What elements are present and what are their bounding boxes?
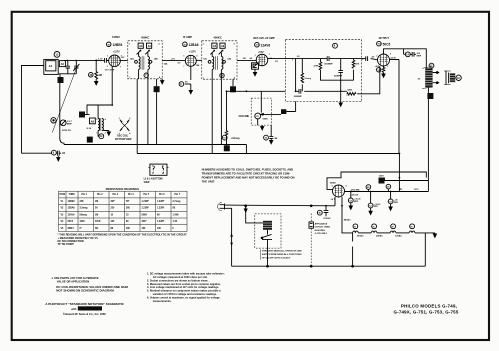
grid trace box 5 black under transformer xyxy=(427,93,433,99)
AVC bypass capacitor .02 xyxy=(22,150,66,161)
capacitor grid coupling xyxy=(105,58,109,63)
svg-text:TUBE: TUBE xyxy=(69,194,76,196)
tuning capacitor gang section xyxy=(51,118,56,123)
wire rectifier plate loop xyxy=(327,172,426,189)
svg-text:68: 68 xyxy=(173,208,176,210)
svg-text:7: 7 xyxy=(269,54,270,56)
svg-text:117V: 117V xyxy=(414,189,419,191)
svg-text:2M*: 2M* xyxy=(111,201,115,203)
grid leak resistor 6M xyxy=(89,60,102,84)
svg-text:PONENT REPLACEMENT AND MAY NOT: PONENT REPLACEMENT AND MAY NOT NECESSARI… xyxy=(202,176,295,180)
wire IF1 pin drops xyxy=(137,79,148,154)
svg-text:18: 18 xyxy=(457,78,460,80)
svg-text:VOLUME: VOLUME xyxy=(238,115,249,118)
cord break arrows xyxy=(230,233,233,245)
svg-text:3M: 3M xyxy=(274,138,277,140)
svg-text:ITEM: ITEM xyxy=(60,194,66,196)
heater V4 xyxy=(353,224,372,233)
line bypass capacitor .05 xyxy=(317,206,331,220)
pin number digits texture xyxy=(96,43,391,187)
svg-text:G-755 ONLY: G-755 ONLY xyxy=(315,233,328,235)
svg-text:185: 185 xyxy=(126,228,131,230)
svg-text:.02: .02 xyxy=(62,152,66,155)
svg-text:A5: A5 xyxy=(213,45,217,48)
svg-text:NC: NC xyxy=(95,228,99,230)
ground volume xyxy=(261,127,264,130)
svg-text:IN MODEL: IN MODEL xyxy=(315,230,326,232)
capacitor volume bypass xyxy=(264,135,278,143)
tube V4 50C5 output xyxy=(371,37,396,68)
tone capacitor 200MMF xyxy=(404,49,422,58)
svg-text:1.22M*: 1.22M* xyxy=(157,221,164,223)
svg-text:10meg: 10meg xyxy=(304,78,311,80)
svg-text:500K: 500K xyxy=(263,118,269,120)
fuse arrow AC xyxy=(244,205,247,212)
svg-text:NOT SHOWN ON SCHEMATIC DIAGRAM: NOT SHOWN ON SCHEMATIC DIAGRAM xyxy=(56,288,114,292)
capacitor C1 antenna xyxy=(66,60,70,73)
grid trace box 4 black xyxy=(281,101,296,114)
svg-text:2: 2 xyxy=(107,66,108,68)
svg-text:35W4: 35W4 xyxy=(330,181,336,184)
filter capacitor C14B xyxy=(368,192,380,215)
svg-text:variation of ±15% in voltage a: variation of ±15% in voltage and resista… xyxy=(153,292,217,296)
svg-text:2: 2 xyxy=(152,165,153,167)
svg-text:MFD: MFD xyxy=(394,202,399,204)
ground heater end xyxy=(433,233,436,237)
svg-text:.05 600V: .05 600V xyxy=(323,218,331,220)
svg-text:80: 80 xyxy=(126,221,129,223)
grid trace box 1 black osc xyxy=(87,137,93,143)
svg-text:6: 6 xyxy=(346,185,347,187)
svg-text:Pin 4: Pin 4 xyxy=(128,193,134,196)
wire V2 plate to IF2 xyxy=(196,59,202,61)
wire osc to converter xyxy=(87,105,112,119)
capacitor 220MMF AF lower xyxy=(294,89,303,98)
resistor 10meg AF xyxy=(301,73,312,83)
svg-text:5: 5 xyxy=(332,185,333,187)
grid trace box 3 black detector xyxy=(230,79,236,92)
svg-text:1.45K: 1.45K xyxy=(173,213,179,216)
heater V2 xyxy=(376,224,409,238)
wire antenna left down xyxy=(22,66,44,154)
svg-text:4: 4 xyxy=(283,110,285,114)
heater V1 xyxy=(357,224,390,238)
svg-text:MFD: MFD xyxy=(354,201,359,203)
svg-text:L3 & L4 BOTTOM: L3 & L4 BOTTOM xyxy=(144,178,163,181)
svg-text:260: 260 xyxy=(126,208,131,210)
svg-text:15: 15 xyxy=(256,116,259,118)
svg-text:OUTPUT: OUTPUT xyxy=(379,37,390,40)
on-off switch dashed box xyxy=(246,206,281,266)
osc coil bottom view symbol xyxy=(115,118,132,141)
svg-text:MFD: MFD xyxy=(374,206,379,208)
svg-text:56*: 56* xyxy=(126,201,130,203)
svg-text:Pin 6: Pin 6 xyxy=(159,194,165,196)
table footnotes xyxy=(58,233,188,246)
svg-text:12BA6: 12BA6 xyxy=(189,43,199,47)
wire antenna bottom xyxy=(58,74,76,77)
svg-text:140: 140 xyxy=(111,220,116,223)
svg-text:H: H xyxy=(392,226,394,228)
svg-text:THROUGH SAMS ALL-THROUGH ONE: THROUGH SAMS ALL-THROUGH ONE xyxy=(262,250,302,253)
svg-text:+117V: +117V xyxy=(113,51,120,54)
svg-text:220MMF: 220MMF xyxy=(334,75,343,77)
svg-text:6: 6 xyxy=(196,55,197,57)
svg-text:Pin 7: Pin 7 xyxy=(175,194,181,196)
svg-text:+CV: +CV xyxy=(171,58,176,60)
svg-text:A1: A1 xyxy=(49,64,53,68)
svg-text:5: 5 xyxy=(162,165,163,167)
svg-text:2.2K-1W: 2.2K-1W xyxy=(351,194,359,196)
trimmer capacitor antenna xyxy=(73,60,79,73)
svg-text:1: 1 xyxy=(255,55,256,57)
svg-text:1: 1 xyxy=(89,138,91,142)
svg-text:VIEW: VIEW xyxy=(144,182,151,184)
wire IF1 secondary to V2 grid xyxy=(162,59,185,61)
svg-text:-1.1V: -1.1V xyxy=(97,58,103,60)
antenna coil A2 xyxy=(59,61,65,67)
svg-text:Pin 1: Pin 1 xyxy=(82,194,88,196)
svg-text:68: 68 xyxy=(157,214,160,216)
wire 120V line xyxy=(385,178,429,181)
resistor 2.2meg AVC xyxy=(222,91,240,144)
wire B minus bus xyxy=(137,154,399,192)
grid trace box 5 black psu xyxy=(379,176,385,184)
svg-text:0*: 0* xyxy=(80,228,82,230)
svg-text:456KC: 456KC xyxy=(141,35,149,39)
svg-text:A4: A4 xyxy=(148,45,152,48)
svg-text:● USE PARTS LIST FOR ALTERNATE: ● USE PARTS LIST FOR ALTERNATE xyxy=(52,276,99,280)
wire V4 plate to output transformer xyxy=(384,49,427,69)
tube V3 12AV6 det avc af xyxy=(249,37,275,66)
svg-text:88: 88 xyxy=(111,228,114,230)
output transformer secondary leads xyxy=(433,72,440,84)
svg-text:84VAC: 84VAC xyxy=(344,218,351,221)
wire IF2 pin drops xyxy=(212,79,221,153)
svg-text:14A: 14A xyxy=(130,58,134,61)
svg-text:2: 2 xyxy=(155,88,157,92)
svg-text:6: 6 xyxy=(334,46,336,48)
svg-text:5. Nominal tolerance on comp: 5. Nominal tolerance on component values… xyxy=(147,289,221,293)
gang coupling diagonal xyxy=(52,67,77,133)
svg-text:15: 15 xyxy=(111,214,114,216)
coupling capacitor 500MMF xyxy=(324,56,334,65)
svg-text:5: 5 xyxy=(96,119,97,121)
parts list note bold xyxy=(52,276,129,292)
svg-text:4: 4 xyxy=(129,132,131,135)
svg-text:-6V: -6V xyxy=(371,56,375,58)
svg-text:measurements.: measurements. xyxy=(153,299,172,303)
part ref 12 osc coil xyxy=(98,131,104,139)
svg-text:1: 1 xyxy=(96,133,97,135)
svg-text:1M: 1M xyxy=(95,214,98,216)
detector diode load xyxy=(252,63,259,69)
svg-text:456KC: 456KC xyxy=(213,35,221,39)
svg-text:7: 7 xyxy=(378,66,379,68)
svg-text:1: 1 xyxy=(119,118,120,120)
svg-text:3: 3 xyxy=(362,59,363,61)
philco models title xyxy=(394,304,459,315)
svg-text:2: 2 xyxy=(129,43,131,45)
svg-text:H: H xyxy=(373,226,375,228)
ground V4 cathode xyxy=(382,73,385,78)
wire B plus vertical from transformer xyxy=(427,87,429,191)
svg-text:12VAC: 12VAC xyxy=(395,235,402,238)
svg-text:Pin 3: Pin 3 xyxy=(113,194,119,196)
svg-text:22K: 22K xyxy=(80,201,85,203)
part ref on rail 2 xyxy=(386,184,391,191)
svg-text:9: 9 xyxy=(53,153,55,155)
ground detector xyxy=(253,69,256,76)
svg-text:470K: 470K xyxy=(95,220,101,223)
svg-text:RESISTANCE READINGS: RESISTANCE READINGS xyxy=(106,187,139,191)
tube V5 35W4 rectifier xyxy=(330,181,345,200)
svg-text:154: 154 xyxy=(196,64,200,67)
svg-text:with: with xyxy=(71,307,77,311)
svg-text:15: 15 xyxy=(126,214,129,216)
svg-text:14B: 14B xyxy=(154,58,158,61)
svg-text:5: 5 xyxy=(390,53,391,55)
svg-text:3: 3 xyxy=(119,133,120,135)
svg-text:1. DC voltage measurements t: 1. DC voltage measurements taken with va… xyxy=(147,272,225,276)
svg-text:1400: 1400 xyxy=(80,220,86,223)
wire signal rail left xyxy=(64,59,104,61)
svg-text:5: 5 xyxy=(159,43,161,45)
svg-text:500MMF: 500MMF xyxy=(324,64,333,66)
svg-text:APPLIANCE: APPLIANCE xyxy=(315,222,328,225)
svg-text:0: 0 xyxy=(173,228,175,230)
svg-text:2.2meg: 2.2meg xyxy=(231,137,240,140)
numbers assigned note xyxy=(202,167,295,183)
AC plug xyxy=(218,202,225,210)
part ref 13 xyxy=(54,52,60,58)
svg-text:8: 8 xyxy=(180,84,182,86)
svg-text:©Howard W. Sams & Co., Inc. 19: ©Howard W. Sams & Co., Inc. 1959 xyxy=(63,312,106,316)
svg-text:1.22M*: 1.22M* xyxy=(157,201,164,203)
oscillator coil L2 xyxy=(85,115,110,136)
numbered notes xyxy=(147,272,225,303)
svg-text:3.3meg: 3.3meg xyxy=(80,208,89,210)
svg-text:OV: OV xyxy=(177,63,181,65)
resistance readings table xyxy=(59,187,188,231)
grid trace box 3 black osc xyxy=(79,112,85,118)
svg-text:14D: 14D xyxy=(227,58,231,61)
svg-text:1.22M*: 1.22M* xyxy=(142,208,149,210)
svg-text:A: A xyxy=(234,76,236,79)
svg-text:A PHOTOFACT “STANDARD NOTAT: A PHOTOFACT “STANDARD NOTATION” SCHEMATI… xyxy=(45,302,124,306)
AF box internal wires xyxy=(285,59,379,94)
part ref 17 output transformer xyxy=(429,63,434,68)
grid trace box 1 black xyxy=(58,77,64,83)
svg-text:1: 1 xyxy=(292,59,293,61)
resistor 220K AF bottom xyxy=(347,89,356,95)
appliance outlet xyxy=(309,205,330,266)
svg-text:3. Measured values are from: 3. Measured values are from socket pin t… xyxy=(147,282,221,286)
svg-text:V5: V5 xyxy=(61,228,65,230)
svg-text:2: 2 xyxy=(105,133,106,135)
ground IF1 xyxy=(161,79,164,84)
svg-text:220: 220 xyxy=(111,208,116,210)
svg-text:MMF: MMF xyxy=(67,123,73,125)
svg-text:+57V: +57V xyxy=(258,51,264,54)
svg-text:12BE6: 12BE6 xyxy=(68,201,76,203)
svg-text:120V: 120V xyxy=(379,176,385,178)
svg-text:20: 20 xyxy=(418,78,421,80)
svg-text:1.40: 1.40 xyxy=(173,220,178,223)
capacitor 220MMF AF right xyxy=(334,71,343,78)
speaker xyxy=(444,71,461,85)
ground V2 cathode xyxy=(189,84,192,94)
resistor 47K AF xyxy=(352,60,360,68)
tube V1 12BE6 converter xyxy=(97,35,125,105)
svg-text:50C5: 50C5 xyxy=(383,42,391,46)
svg-text:220K: 220K xyxy=(347,89,352,91)
cathode resistor V2 xyxy=(179,82,191,87)
svg-text:N750 5%: N750 5% xyxy=(62,130,71,132)
svg-text:NUMBERS ASSIGNED TO COILS, SWI: NUMBERS ASSIGNED TO COILS, SWITCHES, FUS… xyxy=(202,167,294,171)
svg-text:Pin 5: Pin 5 xyxy=(144,194,150,196)
oscillator trimmer 1.5-7 xyxy=(60,120,72,132)
svg-text:14C: 14C xyxy=(203,58,207,61)
svg-text:OSC COIL: OSC COIL xyxy=(117,136,129,138)
svg-text:CIRCUITRACE: CIRCUITRACE xyxy=(80,307,99,311)
svg-text:7: 7 xyxy=(120,66,121,68)
svg-text:120V 4MA: 120V 4MA xyxy=(351,188,361,191)
svg-text:A2: A2 xyxy=(61,62,65,66)
svg-text:14A: 14A xyxy=(164,63,168,66)
svg-text:2. Socket connections are sh: 2. Socket connections are shown as botto… xyxy=(147,278,209,282)
svg-text:47K: 47K xyxy=(355,63,359,66)
svg-text:1.22M*: 1.22M* xyxy=(157,208,164,210)
heater chain wire xyxy=(342,197,353,233)
svg-text:50meg: 50meg xyxy=(80,214,88,216)
heater V3 xyxy=(395,224,435,238)
svg-text:13: 13 xyxy=(55,53,58,57)
tube V2 12BA6 IF amp xyxy=(177,35,200,80)
svg-text:56: 56 xyxy=(185,82,188,84)
svg-text:MMF: MMF xyxy=(417,55,422,57)
IF transformer 1 dashed box 456KC xyxy=(119,35,162,79)
svg-text:35W4: 35W4 xyxy=(68,227,75,230)
svg-text:5: 5 xyxy=(429,95,431,99)
svg-text:DET-AVC-AF AMP: DET-AVC-AF AMP xyxy=(253,37,274,40)
svg-text:V1: V1 xyxy=(61,201,65,203)
filter capacitor C14C xyxy=(388,192,398,211)
extra voltage labels xyxy=(164,56,420,191)
switch note text xyxy=(261,249,303,259)
svg-text:OF ON-OFF AUTO & ELECT: OF ON-OFF AUTO & ELECT xyxy=(262,256,291,259)
svg-text:AC voltages measured at 1000 o: AC voltages measured at 1000 ohms per vo… xyxy=(153,275,208,279)
part ref on rail 1 xyxy=(366,185,371,192)
svg-text:6: 6 xyxy=(121,55,122,57)
svg-text:4. Line voltage maintained a: 4. Line voltage maintained at 117 volts … xyxy=(147,285,219,289)
svg-text:130: 130 xyxy=(157,228,162,230)
svg-text:1: 1 xyxy=(152,173,153,175)
ground AF box xyxy=(339,92,342,106)
photofact line xyxy=(45,302,124,316)
resistor 470K AF xyxy=(314,62,322,70)
svg-text:2.7meg: 2.7meg xyxy=(173,201,182,203)
svg-text:+2V: +2V xyxy=(121,57,125,59)
svg-text:OUTLET USED: OUTLET USED xyxy=(315,227,331,229)
svg-text:1: 1 xyxy=(107,55,108,57)
svg-text:CONV: CONV xyxy=(112,35,120,39)
svg-text:V3: V3 xyxy=(61,214,65,216)
svg-text:7: 7 xyxy=(183,66,184,68)
svg-text:6. Volume control at maximum: 6. Volume control at maximum, no signal … xyxy=(147,295,220,299)
L3 L4 bottom view box xyxy=(144,164,169,184)
svg-text:12BE6: 12BE6 xyxy=(113,43,123,47)
svg-text:Pin 2: Pin 2 xyxy=(97,194,103,196)
svg-text:.02: .02 xyxy=(297,56,301,58)
svg-text:1: 1 xyxy=(203,77,204,79)
grid trace box 2 black xyxy=(154,79,160,145)
svg-text:-6V: -6V xyxy=(249,58,253,60)
wire AC line top xyxy=(225,197,336,206)
svg-text:5: 5 xyxy=(380,179,382,183)
svg-text:IF AMP: IF AMP xyxy=(183,35,192,39)
svg-text:2: 2 xyxy=(129,118,130,120)
wire tuning gang vertical xyxy=(60,83,64,145)
svg-text:1: 1 xyxy=(183,55,184,57)
svg-text:THE UNIT.: THE UNIT. xyxy=(202,180,215,184)
svg-text:1: 1 xyxy=(226,147,228,151)
svg-text:12AV6: 12AV6 xyxy=(68,213,76,216)
wire V3 plate to AF box xyxy=(268,58,286,60)
output transformer T1 primary xyxy=(418,66,433,88)
svg-text:470K: 470K xyxy=(314,65,319,68)
svg-text:5: 5 xyxy=(234,43,235,45)
IF transformer 2 dashed box 456KC xyxy=(202,35,237,79)
svg-text:1: 1 xyxy=(387,66,388,68)
svg-text:H: H xyxy=(354,226,356,228)
svg-text:45K*: 45K* xyxy=(142,220,147,223)
svg-text:PHILCO MODELS G-749,: PHILCO MODELS G-749, xyxy=(401,304,457,309)
svg-text:TP TIE POINT: TP TIE POINT xyxy=(58,242,75,246)
svg-text:+117V: +117V xyxy=(189,51,196,54)
svg-text:A3: A3 xyxy=(139,45,143,48)
svg-text:24VAC: 24VAC xyxy=(376,235,383,238)
svg-text:G-749X, G-751, G-753, G-755: G-749X, G-751, G-753, G-755 xyxy=(394,309,459,314)
svg-text:1M: 1M xyxy=(243,58,246,60)
svg-text:12BA6: 12BA6 xyxy=(68,207,76,210)
svg-text:V2: V2 xyxy=(61,208,65,210)
svg-text:3: 3 xyxy=(81,113,83,117)
loop antenna A1 xyxy=(44,59,58,74)
svg-text:12AV6: 12AV6 xyxy=(261,43,271,47)
AF network dashed box xyxy=(285,40,361,102)
svg-text:1: 1 xyxy=(129,77,130,79)
filter capacitor C14A xyxy=(348,192,360,210)
svg-text:220MMF: 220MMF xyxy=(294,96,303,98)
svg-text:TRANSFORMERS ARE TO FACILITATE: TRANSFORMERS ARE TO FACILITATE CIRCUIT T… xyxy=(202,172,291,176)
svg-text:1.22M*: 1.22M* xyxy=(142,201,149,203)
wire AC line bottom xyxy=(225,208,232,266)
svg-text:130: 130 xyxy=(142,228,147,230)
svg-text:1: 1 xyxy=(59,79,61,83)
wire B plus rail xyxy=(345,188,429,197)
svg-text:4: 4 xyxy=(105,118,107,121)
wire IF2 to detector xyxy=(237,59,256,61)
svg-text:50C5: 50C5 xyxy=(68,221,74,223)
svg-text:36VAC: 36VAC xyxy=(357,235,364,238)
svg-text:3 4 7: 3 4 7 xyxy=(331,198,335,201)
junction dots main xyxy=(67,60,401,207)
wire AVC bus xyxy=(64,145,246,154)
svg-text:A8: A8 xyxy=(91,119,95,123)
svg-text:1M: 1M xyxy=(95,201,98,203)
svg-text:3: 3 xyxy=(346,95,347,97)
